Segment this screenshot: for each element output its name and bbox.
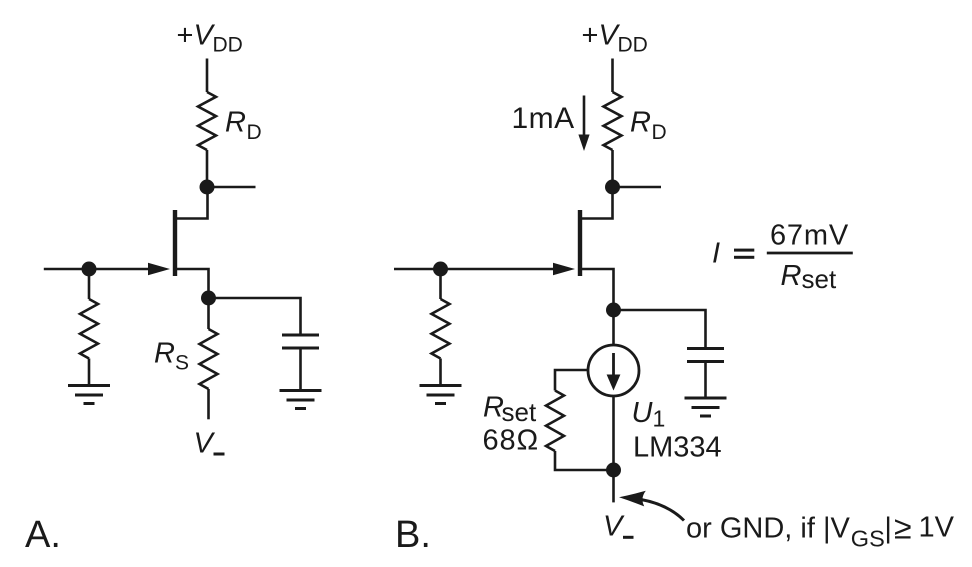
capacitor bypass (A) [282, 335, 319, 348]
label RD (B) [630, 107, 667, 145]
wire source node to RS (A) [207, 298, 210, 329]
label RD (A) [225, 107, 262, 145]
wire VDD lead (A) [206, 59, 209, 93]
svg-text:R: R [781, 260, 802, 292]
ground (A gate) [68, 386, 110, 404]
wire source node to capacitor (B) [614, 310, 706, 349]
svg-text:R: R [630, 107, 651, 139]
svg-text:D: D [652, 121, 667, 144]
current source U1 circle [588, 345, 639, 396]
resistor RD (A) [198, 92, 216, 150]
wire gate resistor to ground (A) [88, 359, 91, 386]
resistor gate bias (A) [80, 299, 98, 359]
resistor gate bias (B) [432, 299, 450, 359]
capacitor bypass (B) [687, 349, 724, 362]
wire Rset bottom to V- node [555, 451, 607, 470]
wire RD bottom to drain node (B) [611, 150, 614, 187]
node V- junction dot (B) [606, 463, 621, 478]
svg-text:+V: +V [582, 20, 621, 52]
resistor Rset [546, 391, 564, 452]
resistor RD (B) [604, 92, 622, 150]
svg-text:I: I [712, 238, 720, 270]
transistor Q2 JFET (B) gate bar [578, 210, 582, 276]
current source U1 arrow shaft [612, 353, 615, 377]
transistor Q2 JFET (B) gate arrowhead [553, 263, 575, 275]
wire gate node to gate resistor (B) [439, 269, 442, 299]
transistor Q2 JFET (B) drain lead [580, 187, 613, 219]
node drain junction dot (A) [200, 180, 215, 195]
ground (A capacitor) [280, 391, 322, 409]
node +VDD (A) label [177, 20, 243, 57]
wire gate input (A) [44, 268, 160, 271]
wire V- lead (B) [612, 470, 615, 502]
wire source node to current source (B) [612, 310, 615, 345]
svg-text:67mV: 67mV [770, 220, 849, 252]
wire current source left tap (B) [555, 370, 588, 391]
svg-text:R: R [154, 338, 175, 370]
svg-text:1mA: 1mA [512, 102, 575, 135]
svg-text:1V: 1V [919, 512, 955, 544]
label U1 [632, 397, 666, 432]
wire capacitor to ground (B) [704, 362, 707, 399]
ground (B gate) [420, 386, 462, 404]
node gate input junction dot (B) [433, 262, 448, 277]
wire source node to capacitor (A) [209, 298, 301, 335]
label Rset [483, 392, 537, 428]
svg-text:B.: B. [395, 514, 431, 556]
wire 1mA current arrow shaft [583, 96, 586, 137]
transistor Q1 JFET (A) gate arrowhead [148, 263, 170, 275]
label RS (A) [154, 338, 189, 375]
node +VDD (B) label [582, 20, 648, 57]
svg-text:DD: DD [213, 34, 243, 57]
svg-text:|: | [884, 513, 892, 545]
wire RS to V- (A) [207, 389, 210, 419]
svg-text:set: set [502, 397, 537, 427]
ground (B capacitor) [685, 398, 727, 416]
svg-text:+V: +V [177, 20, 216, 52]
wire gate node to gate resistor (A) [88, 269, 91, 299]
transistor Q1 JFET (A) gate bar [173, 210, 177, 276]
wire gate input (B) [394, 268, 565, 271]
annotation curved arrow to V- node [619, 491, 684, 521]
wire VDD lead (B) [611, 59, 614, 93]
svg-text:DD: DD [618, 34, 648, 57]
node gate input junction dot (A) [82, 262, 97, 277]
equation I = 67mV / Rset [712, 220, 853, 295]
svg-text:GS: GS [851, 525, 885, 551]
svg-text:R: R [225, 107, 246, 139]
wire drain output stub (A) [207, 186, 256, 189]
svg-text:set: set [802, 264, 837, 294]
wire capacitor to ground (A) [299, 348, 302, 391]
wire current source bottom to V- node [612, 396, 615, 470]
svg-text:V: V [603, 511, 625, 543]
1mA current arrowhead [578, 135, 589, 152]
svg-text:or GND, if |V: or GND, if |V [686, 513, 850, 545]
current source U1 arrowhead [607, 375, 621, 391]
node V- label (B) [603, 511, 634, 543]
node source junction dot (B) [606, 303, 621, 318]
wire RD bottom to drain node (A) [206, 150, 209, 187]
resistor RS (A) [200, 329, 218, 389]
svg-text:≥: ≥ [894, 510, 912, 546]
wire gate resistor to ground (B) [439, 359, 442, 386]
node source junction dot (A) [201, 291, 216, 306]
svg-text:LM334: LM334 [633, 432, 722, 464]
node V- label (A) [194, 428, 225, 460]
transistor Q1 JFET (A) drain lead [175, 187, 208, 219]
svg-text:D: D [247, 121, 262, 144]
svg-text:1: 1 [653, 406, 666, 432]
svg-text:V: V [194, 428, 216, 460]
svg-text:A.: A. [25, 514, 61, 556]
transistor Q2 JFET (B) source lead [580, 269, 614, 310]
svg-text:68Ω: 68Ω [483, 425, 540, 457]
transistor Q1 JFET (A) source lead [175, 269, 209, 298]
svg-text:U: U [632, 397, 654, 429]
node drain junction dot (B) [605, 180, 620, 195]
svg-text:S: S [175, 352, 189, 375]
wire drain output stub (B) [613, 186, 662, 189]
